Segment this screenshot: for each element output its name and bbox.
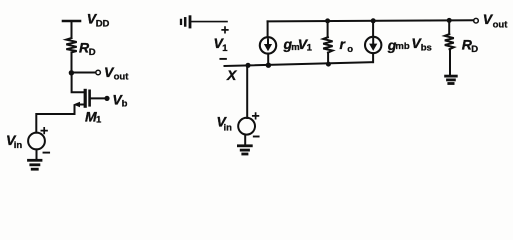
Vin source circle (left) xyxy=(28,133,45,150)
node drain (dot) xyxy=(69,70,74,75)
bottom rail (node X wire) xyxy=(225,62,374,66)
wire ro top xyxy=(327,21,329,37)
wire RD bottom to ground xyxy=(449,49,451,74)
source arrowhead xyxy=(73,102,80,107)
node gmV1 bottom dot xyxy=(266,62,271,67)
wire Vin circle to ground (right) xyxy=(244,135,246,145)
wire gate ground to V1 + terminal xyxy=(192,21,228,23)
svg-text:DD: DD xyxy=(96,18,110,29)
svg-text:out: out xyxy=(114,72,130,83)
resistor RD (left) xyxy=(66,38,76,52)
resistor RD (right) xyxy=(445,34,454,49)
Vb terminal dot xyxy=(104,96,109,101)
source lead of M1 with arrow xyxy=(79,104,84,106)
wire node X down to Vin (right) xyxy=(246,67,248,118)
transistor M1 channel bar xyxy=(84,90,87,106)
node X dot xyxy=(245,63,250,68)
wire source to Vin (left) xyxy=(36,106,74,133)
svg-text:D: D xyxy=(471,44,478,55)
node RD top dot xyxy=(447,18,452,23)
ground (gate of small-signal model, sideways) xyxy=(189,17,192,27)
current source gmV1 circle xyxy=(260,37,276,53)
wire gmV1 bottom to rail xyxy=(267,54,269,64)
wire node down to drain of M1 xyxy=(72,75,85,92)
node ro top dot xyxy=(325,18,330,23)
plus sign (V1) xyxy=(222,27,228,33)
plus sign (right Vin) xyxy=(253,113,259,119)
gate lead of M1 xyxy=(91,97,105,99)
node ro bottom dot xyxy=(326,62,331,67)
svg-text:D: D xyxy=(89,47,96,58)
Vout terminal (open circle, right) xyxy=(474,18,479,23)
Vout terminal (open circle, left) xyxy=(96,70,101,75)
plus sign (left Vin) xyxy=(41,128,47,134)
minus sign (left Vin) xyxy=(44,152,50,154)
gmV1 arrow xyxy=(267,39,269,44)
wire VDD to resistor RD xyxy=(71,22,73,38)
wire gmb bottom to rail corner xyxy=(372,53,374,62)
ground (left Vin) xyxy=(29,159,42,162)
svg-text:1: 1 xyxy=(307,43,313,54)
current source gmbVbs circle xyxy=(365,37,381,53)
ground (RD right) xyxy=(446,75,457,78)
node gmb top dot xyxy=(371,18,376,23)
svg-text:X: X xyxy=(226,67,238,83)
resistor ro xyxy=(323,37,332,52)
wire top rail down to gmV1 source xyxy=(267,21,269,37)
svg-text:r: r xyxy=(340,36,347,52)
wire node to Vout terminal xyxy=(73,72,95,74)
svg-text:mb: mb xyxy=(395,41,409,52)
Vin source circle (right) xyxy=(238,118,255,135)
svg-text:b: b xyxy=(122,99,128,110)
transistor M1 gate bar xyxy=(88,91,91,106)
top rail of small-signal model xyxy=(268,20,474,21)
wire gmb top xyxy=(372,21,374,37)
svg-text:1: 1 xyxy=(222,43,228,54)
gmbVbs arrow xyxy=(372,39,374,44)
svg-text:out: out xyxy=(493,19,509,30)
svg-text:in: in xyxy=(14,140,23,151)
wire RD top xyxy=(448,21,450,35)
svg-text:bs: bs xyxy=(421,43,432,54)
svg-text:o: o xyxy=(347,44,353,55)
svg-text:1: 1 xyxy=(96,115,102,126)
VDD supply bar xyxy=(63,20,80,23)
svg-text:in: in xyxy=(224,122,233,133)
minus sign (V1) xyxy=(220,58,226,60)
wire Vin circle to ground (left) xyxy=(36,149,38,158)
ground (right Vin) xyxy=(238,144,251,147)
minus sign (right Vin) xyxy=(254,136,259,138)
wire RD to drain node xyxy=(71,52,73,71)
wire ro bottom xyxy=(327,53,329,64)
